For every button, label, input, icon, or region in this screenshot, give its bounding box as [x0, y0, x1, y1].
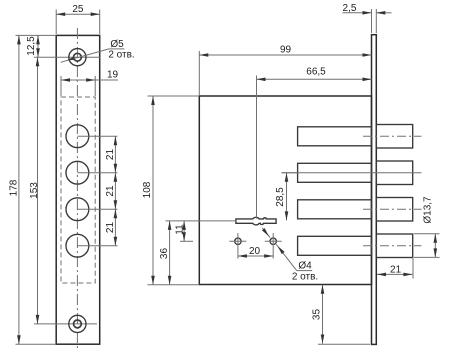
lock case side view: [199, 96, 371, 285]
svg-text:2 отв.: 2 отв.: [292, 272, 318, 283]
bolt hole circle 4: [66, 234, 89, 257]
svg-text:Ø5: Ø5: [110, 39, 124, 50]
svg-text:21: 21: [105, 222, 116, 234]
svg-text:2 отв.: 2 отв.: [108, 50, 134, 61]
dimension 28,5: [282, 172, 298, 174]
svg-text:28,5: 28,5: [275, 187, 286, 207]
bolt 2 head: [376, 161, 412, 185]
svg-text:66,5: 66,5: [306, 66, 326, 77]
bolt 1 inner: [298, 127, 372, 146]
svg-text:108: 108: [142, 181, 153, 198]
svg-text:Ø13,7: Ø13,7: [423, 196, 434, 224]
dimension 12,5: [16, 34, 57, 36]
keyhole cam: [236, 217, 276, 225]
bolt 2 inner: [298, 163, 372, 182]
dimension 108: [148, 95, 200, 97]
dimension 19: [60, 76, 62, 96]
bolt hole circle 2: [66, 161, 89, 184]
svg-text:35: 35: [311, 309, 322, 321]
dimension 21 b: [114, 173, 116, 210]
screw hole bottom: [69, 315, 86, 332]
faceplate side view: [372, 35, 377, 345]
dimension 178: [16, 343, 57, 345]
svg-text:21: 21: [105, 185, 116, 197]
bolt 1 head: [376, 125, 412, 149]
dimension 66,5: [256, 76, 258, 219]
dimension 99: [198, 51, 200, 95]
bolt 3 head: [376, 198, 412, 222]
bolt 3 inner: [298, 200, 372, 219]
leader diameter 5: [61, 49, 109, 62]
svg-text:21: 21: [390, 264, 402, 275]
svg-text:19: 19: [107, 70, 119, 81]
svg-text:178: 178: [9, 179, 20, 196]
bolt hole circle 3: [66, 198, 89, 221]
hidden lock case (dashed): [61, 97, 95, 283]
dimension 11: [180, 240, 193, 242]
svg-text:2,5: 2,5: [343, 3, 357, 14]
faceplate front view outline: [56, 35, 99, 344]
svg-text:21: 21: [105, 149, 116, 161]
svg-text:12,5: 12,5: [26, 36, 37, 56]
bolt hole circle 1: [66, 125, 89, 148]
svg-text:36: 36: [159, 248, 170, 260]
dimension 35: [318, 343, 370, 345]
svg-text:20: 20: [249, 246, 261, 257]
dimension 25: [55, 10, 57, 35]
dimension 21 right: [412, 258, 414, 279]
svg-text:Ø4: Ø4: [298, 260, 312, 271]
leader diameter 4: [262, 228, 270, 238]
svg-text:11: 11: [175, 224, 186, 235]
faceplate vertical centerline: [76, 28, 78, 351]
dimension 153: [37, 57, 39, 324]
screw hole top: [69, 49, 86, 66]
svg-text:153: 153: [29, 182, 40, 199]
bolt 4 head: [376, 234, 412, 258]
bolt 1 centerline: [363, 135, 422, 137]
dimension diameter 13,7: [414, 233, 440, 235]
mounting hole right: [270, 238, 276, 244]
dimension 2,5: [371, 9, 373, 33]
screw hole top centerline: [34, 56, 100, 58]
bolt 4 inner: [298, 236, 372, 255]
mounting hole left: [235, 238, 241, 244]
dimension 21 c: [114, 209, 116, 246]
svg-text:25: 25: [72, 4, 84, 15]
screw hole bottom centerline: [34, 323, 97, 325]
bolt 2 centerline / ext of 28,5: [282, 172, 422, 174]
dimension 21 a: [114, 136, 116, 173]
svg-text:99: 99: [280, 44, 292, 55]
bolt 4 centerline: [363, 245, 422, 247]
bolt 3 centerline: [363, 208, 422, 210]
dimension 36: [166, 220, 237, 222]
dimension 20: [238, 255, 273, 257]
